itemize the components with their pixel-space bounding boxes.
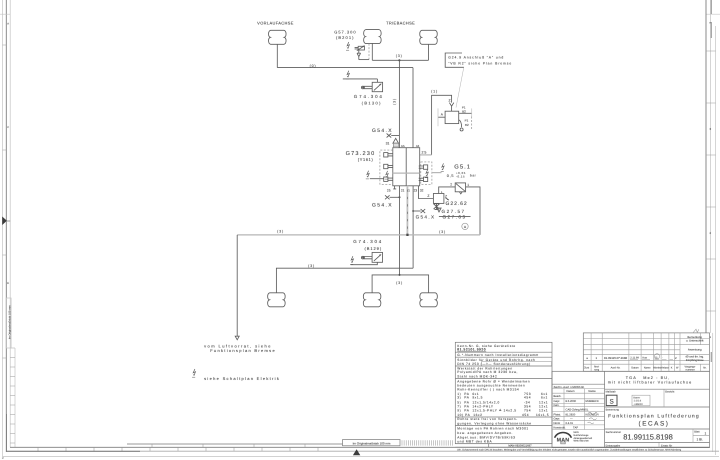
svg-text:(3): (3): [308, 264, 315, 268]
svg-text:Im Originalmaßstab 100 mm: Im Originalmaßstab 100 mm: [8, 305, 11, 340]
connector pins right 2: [419, 177, 428, 181]
fold mark: [693, 329, 699, 332]
wire electrical to left connector: [370, 178, 384, 180]
svg-text:G54.X: G54.X: [416, 215, 436, 220]
svg-text:Plotst.: Plotst.: [554, 414, 562, 417]
signature scribbles: [588, 412, 598, 414]
svg-text:a: a: [586, 356, 588, 360]
svg-text:MUEBECK: MUEBECK: [586, 400, 599, 403]
svg-text:81.2920: 81.2920: [566, 414, 576, 417]
wire bellow1 drop: [276, 44, 278, 67]
svg-text:3: 3: [710, 127, 712, 131]
svg-text:(ECAS): (ECAS): [639, 420, 670, 427]
svg-text:Kue: Kue: [643, 356, 648, 359]
svg-text:2: 2: [675, 356, 677, 360]
svg-text:Empfängnisse: Empfängnisse: [686, 358, 704, 362]
port B2 of check valve: [459, 112, 472, 114]
wire (0) down to block port A4: [412, 68, 414, 148]
revision header row: [584, 364, 707, 371]
wire front axle lower line: [276, 268, 413, 293]
svg-text:(B130): (B130): [362, 101, 382, 106]
svg-text:Funktionsplan Bremse: Funktionsplan Bremse: [210, 348, 276, 353]
svg-text:u. Unterschrift: u. Unterschrift: [686, 339, 704, 343]
svg-text:(1): (1): [431, 90, 438, 94]
svg-text:DIN 74 253 (—◊— Sonderausführu: DIN 74 253 (—◊— Sonderausführung): [457, 362, 530, 366]
wire port 25 riser: [432, 95, 452, 155]
gauge circle U: [462, 223, 468, 229]
right connector dashed box: [421, 162, 432, 185]
fine mm ruler: [402, 440, 452, 445]
svg-text:(3): (3): [439, 230, 446, 234]
bottom outer frame: [2, 455, 719, 457]
wire port 32 to G22.62: [419, 186, 434, 199]
svg-text:Name: Name: [588, 390, 596, 393]
svg-text:6.4.01: 6.4.01: [566, 422, 574, 425]
svg-text:Datum: Datum: [631, 367, 638, 370]
note G24.9 box: [445, 53, 464, 67]
bellows drive-axle top right: [420, 30, 438, 44]
svg-text:Norm: Norm: [554, 422, 561, 425]
connector pins left 2: [384, 164, 393, 168]
svg-text:Urh. Schutzvermerk nach DIN 34: Urh. Schutzvermerk nach DIN 34 beachten.…: [457, 448, 682, 451]
vertical mm-ruler left: [10, 348, 15, 447]
left connector dashed box: [380, 150, 393, 184]
svg-text:Z: Z: [445, 194, 447, 198]
svg-text:TAP: TAP: [573, 426, 578, 429]
svg-text:(3): (3): [396, 281, 403, 285]
muffler under G22.62: [434, 204, 440, 210]
bellows B front-axle top: [269, 30, 287, 44]
port 25 blind plug: [393, 186, 396, 189]
svg-text:(B201): (B201): [336, 35, 355, 40]
svg-text:MAN: MAN: [557, 438, 570, 444]
junction: [398, 59, 400, 61]
lightning small inside right box: [425, 170, 428, 178]
wire to air reservoir: [236, 235, 238, 336]
height sensor B129 symbol: [372, 252, 382, 262]
svg-text:Im Originalmaßstab 100 mm: Im Originalmaßstab 100 mm: [353, 441, 391, 445]
svg-text:0,5: 0,5: [447, 174, 454, 178]
bellows drive-axle bottom left: [363, 293, 381, 307]
svg-text:Gepr.: Gepr.: [554, 418, 561, 421]
svg-text:(Y161): (Y161): [358, 157, 374, 162]
svg-text:R2: R2: [465, 123, 469, 127]
svg-text:MAN-09200021697: MAN-09200021697: [508, 445, 532, 448]
wire bellow2 drop: [371, 43, 373, 60]
svg-text:G74.304: G74.304: [353, 239, 383, 244]
scale stamp S: [606, 395, 617, 405]
svg-text:2: 2: [450, 182, 452, 186]
svg-text:25: 25: [421, 151, 427, 155]
right margin ticks: [706, 51, 716, 311]
svg-text:G27.57: G27.57: [442, 209, 466, 214]
svg-text:siehe Schaltplan Elektrik: siehe Schaltplan Elektrik: [204, 376, 280, 381]
svg-text:AA: AA: [401, 144, 405, 148]
page border left margin lines: [2, 0, 4, 457]
svg-text:16x1,5: 16x1,5: [536, 413, 549, 417]
svg-text:VORLAUFACHSE: VORLAUFACHSE: [257, 20, 294, 25]
wire bellow3 drop: [428, 44, 430, 60]
svg-text:TRIEBACHSE: TRIEBACHSE: [386, 20, 415, 25]
svg-text:454: 454: [522, 413, 529, 417]
bellows drive-axle top left: [364, 30, 382, 44]
svg-text:-: -: [662, 356, 663, 359]
svg-text:G54.X: G54.X: [372, 128, 393, 134]
svg-text:Zust: Zust: [584, 367, 589, 370]
svg-text:“VB R2” siehe Plan Bremse: “VB R2” siehe Plan Bremse: [448, 62, 512, 66]
svg-text:Erstausgabe: Erstausgabe: [606, 444, 621, 447]
supply line (3) gray: [237, 234, 480, 236]
svg-text:bar: bar: [470, 174, 477, 178]
wire (0) horizontal: [277, 67, 413, 69]
scale label box horizontal: [343, 440, 401, 446]
wire B201 tap stub: [359, 59, 369, 61]
svg-text:S: S: [609, 399, 613, 406]
svg-text:1: 1: [595, 356, 597, 360]
svg-text:G27.63: G27.63: [442, 215, 466, 220]
connector pins left 3: [384, 177, 393, 181]
svg-text:Gewicht: Gewicht: [665, 391, 675, 394]
svg-text:Benennung: Benennung: [606, 409, 620, 412]
lightning at B129 wire: [350, 256, 353, 264]
svg-text:81.99115.D*.2688: 81.99115.D*.2688: [604, 356, 627, 360]
svg-text:C: C: [7, 126, 9, 129]
svg-text:G24.9 Anschluß “A” und: G24.9 Anschluß “A” und: [448, 55, 504, 59]
svg-text:Maßstab: Maßstab: [606, 391, 617, 394]
svg-text:Konstrukt.: Konstrukt.: [554, 426, 566, 429]
connector pins right 1: [419, 165, 428, 169]
svg-text:E: E: [7, 282, 9, 285]
port A of check valve: [438, 116, 445, 118]
lightning at elektrik note: [192, 369, 195, 377]
vertical scale label box: [6, 298, 11, 348]
svg-text:Montage von PA Rohren nach M30: Montage von PA Rohren nach M3001: [457, 426, 528, 430]
leader line: [456, 67, 464, 107]
height sensor B130 symbol: [372, 82, 382, 91]
svg-text:CAD-Zchng.MWSL: CAD-Zchng.MWSL: [566, 409, 589, 412]
svg-text:Stahl nach MOK-342: Stahl nach MOK-342: [457, 374, 497, 378]
svg-text:A: A: [441, 113, 444, 117]
svg-text:81.99115.8198: 81.99115.8198: [623, 433, 673, 442]
bellows drive-axle bottom right: [420, 293, 438, 307]
lightning small inside left box: [385, 171, 388, 179]
wire G5.1 port1 to supply: [466, 187, 480, 235]
svg-text:Bearb.: Bearb.: [554, 395, 562, 398]
wire drive axle lower line: [372, 275, 429, 293]
svg-text:2.11.99: 2.11.99: [630, 356, 639, 359]
svg-text:32: 32: [420, 189, 424, 193]
svg-text:Blatt: Blatt: [694, 430, 699, 433]
svg-text:G5.1: G5.1: [454, 163, 471, 170]
test point X G54.X at port 23: [413, 210, 421, 212]
check valve under B201: [357, 50, 361, 60]
svg-text:G.*-Nummern nach Installations: G.*-Nummern nach Installationsdiagramm: [457, 353, 538, 357]
svg-text:+.86010: +.86010: [634, 403, 644, 406]
svg-text:31: 31: [386, 142, 390, 146]
svg-text:A: A: [7, 23, 9, 26]
svg-text:Funktionsplan Luftfederung: Funktionsplan Luftfederung: [608, 413, 700, 419]
bottom centering arrow: [353, 449, 360, 455]
svg-text:23: 23: [414, 189, 418, 193]
title main box: [552, 371, 710, 447]
svg-text:81.52101.9920: 81.52101.9920: [457, 348, 486, 352]
svg-text:Anweisung: Anweisung: [688, 348, 702, 352]
check valve U (G24.9): [449, 103, 453, 112]
svg-text:8.5.2000: 8.5.2000: [566, 400, 577, 403]
bottom ruler main line: [10, 446, 710, 448]
svg-text:-0,15: -0,15: [456, 175, 465, 179]
pressure sensor B201 symbol: [358, 46, 364, 50]
svg-text:Sachnummer: Sachnummer: [606, 431, 622, 434]
valve block G73.230 body: [393, 148, 420, 186]
svg-text:3) PA 9x1,5: 3) PA 9x1,5: [457, 396, 483, 400]
revision row a: [586, 356, 677, 360]
MAN logo: [555, 432, 572, 437]
svg-text:Name: Name: [644, 367, 651, 370]
svg-text:µ: µ: [2, 457, 4, 460]
overflow valve G22.62: [433, 194, 444, 204]
svg-text:MAN: MAN: [574, 431, 579, 434]
title block notes box: [455, 342, 552, 443]
height sensor G74.304 (B130) wire: [343, 79, 378, 82]
revision right cells: [685, 335, 704, 362]
svg-text:und MBT des KBA: und MBT des KBA: [457, 439, 492, 443]
svg-text:454: 454: [524, 396, 531, 400]
left margin section ticks: [3, 45, 7, 358]
wire B129 drop: [351, 262, 378, 264]
svg-text:G57.300: G57.300: [334, 30, 356, 35]
left centering arrow: [2, 217, 7, 226]
bottom second line: [7, 450, 141, 452]
wire port 1 gray supply drop: [406, 186, 408, 235]
svg-text:Ersatz für: Ersatz für: [661, 444, 672, 447]
svg-text:25: 25: [387, 189, 391, 193]
svg-text:21: 21: [401, 189, 405, 193]
svg-text:Werk München: Werk München: [574, 440, 590, 443]
svg-text:Aktiengesellschaft: Aktiengesellschaft: [574, 437, 593, 440]
svg-text:(3): (3): [277, 230, 284, 234]
wire (3) down to block port AA: [398, 60, 400, 147]
svg-text:gungen. Verlegung ohne Wassers: gungen. Verlegung ohne Wassersäcke: [457, 421, 531, 425]
svg-text:Nr.: Nr.: [703, 367, 707, 370]
svg-text:Datum: Datum: [567, 390, 576, 393]
middle column: [552, 371, 605, 447]
right margin lines: [705, 0, 707, 333]
svg-text:(0): (0): [310, 64, 317, 68]
svg-text:G54.X: G54.X: [372, 202, 393, 208]
wire port 21 down: [399, 186, 401, 275]
svg-text:Werkst: Werkst: [653, 367, 661, 370]
svg-text:G22.62: G22.62: [446, 201, 468, 207]
svg-text:1: 1: [467, 183, 469, 187]
svg-text:(3): (3): [392, 98, 396, 105]
lightning at left wire: [366, 171, 369, 179]
svg-text:6x1: 6x1: [541, 396, 548, 400]
bottom ruler strip line upper: [127, 443, 343, 445]
svg-text:G74.304: G74.304: [354, 94, 384, 99]
lightning at B201: [346, 42, 349, 50]
lightning at B130 wire: [346, 71, 349, 79]
svg-text:Ausf.-Nr.: Ausf.-Nr.: [611, 367, 621, 370]
svg-text:A4: A4: [416, 144, 420, 148]
right column rows: [605, 389, 710, 442]
svg-text:1 Bl.: 1 Bl.: [697, 438, 703, 442]
svg-text:mit nicht liftbarer Vorlaufach: mit nicht liftbarer Vorlaufachse: [608, 381, 692, 385]
wire (3) drive axle horizontal: [372, 59, 428, 61]
svg-text:Gepr.: Gepr.: [554, 400, 561, 403]
wire port 25 gray stub: [420, 154, 432, 156]
wire gray to G5.1: [432, 172, 442, 174]
svg-text:1: 1: [408, 189, 410, 193]
svg-text:Z: Z: [449, 98, 451, 102]
svg-text:K: K: [671, 367, 673, 370]
svg-text:W: W: [676, 367, 679, 370]
svg-text:(3): (3): [396, 54, 403, 58]
kenn box: [632, 395, 650, 406]
notes bottom cell: [455, 444, 709, 448]
bottom ruler ticks: [38, 447, 318, 451]
bellows front-axle bottom: [268, 293, 286, 307]
revision table: [583, 333, 709, 371]
svg-text:2: 2: [710, 231, 712, 235]
wire port 23 down: [412, 186, 414, 268]
svg-text:(B129): (B129): [364, 246, 382, 251]
svg-text:—: —: [570, 418, 573, 421]
silencer on port 31: [393, 138, 399, 143]
svg-text:Gen.: Gen.: [554, 404, 560, 407]
top frame corner stubs: [0, 13, 720, 15]
svg-text:Z: Z: [427, 194, 429, 198]
vent triangle: [437, 208, 441, 212]
svg-text:Nutzfahrzeuge: Nutzfahrzeuge: [574, 434, 590, 437]
wire dashed to bellow2: [368, 43, 370, 59]
svg-text:TGA Me2 - BU,: TGA Me2 - BU,: [626, 376, 671, 380]
svg-text:u: u: [464, 224, 466, 229]
svg-text:B2: B2: [462, 110, 466, 114]
svg-text:Zeichn.-Ausf. n.M3056 Bl.: Zeichn.-Ausf. n.M3056 Bl.: [554, 386, 585, 389]
port R2 of check valve: [459, 120, 462, 127]
svg-text:1: 1: [705, 431, 707, 435]
svg-text:Anlass: Anlass: [661, 367, 669, 370]
connector pins left 1: [384, 153, 393, 157]
